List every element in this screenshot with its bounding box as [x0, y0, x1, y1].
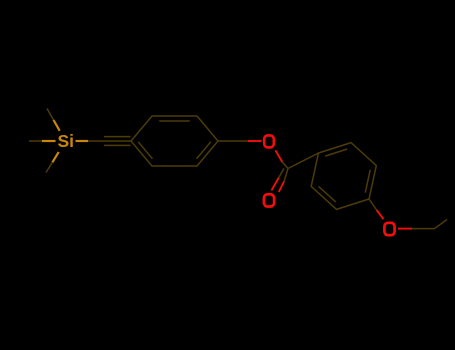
bond O1-C(carbonyl) [275, 150, 288, 168]
bond Si-C1 right [76, 140, 104, 142]
oxygen atom label O1 (ester O) [264, 135, 274, 147]
bond Si-CH3 up (methyl) [47, 109, 60, 131]
bond C(carbonyl)-ring2 [288, 153, 319, 169]
svg-text:Si: Si [58, 131, 75, 151]
benzene ring 2 (methoxyphenyl) [311, 143, 376, 210]
bond ring2-O3 (methoxy oxygen) [369, 199, 384, 219]
bond Si-CH3 down (methyl) [46, 152, 59, 173]
bond ring1-O1 (ester oxygen) [218, 140, 262, 142]
oxygen atom label O3 (methoxy O) [384, 223, 394, 235]
short terminal stub top-right of methyl [435, 220, 447, 229]
triple bond C1#C2 (alkyne) with middle line continuing to ring [103, 137, 131, 146]
bond O3-CH3 (methoxy methyl) [398, 228, 435, 230]
oxygen atom label O2 (carbonyl O) [264, 194, 274, 206]
bond Si-CH3 left (methyl) [29, 140, 56, 142]
carbonyl double bond C=O2 [272, 168, 289, 192]
benzene ring 1 (para-phenylene) [131, 116, 218, 166]
